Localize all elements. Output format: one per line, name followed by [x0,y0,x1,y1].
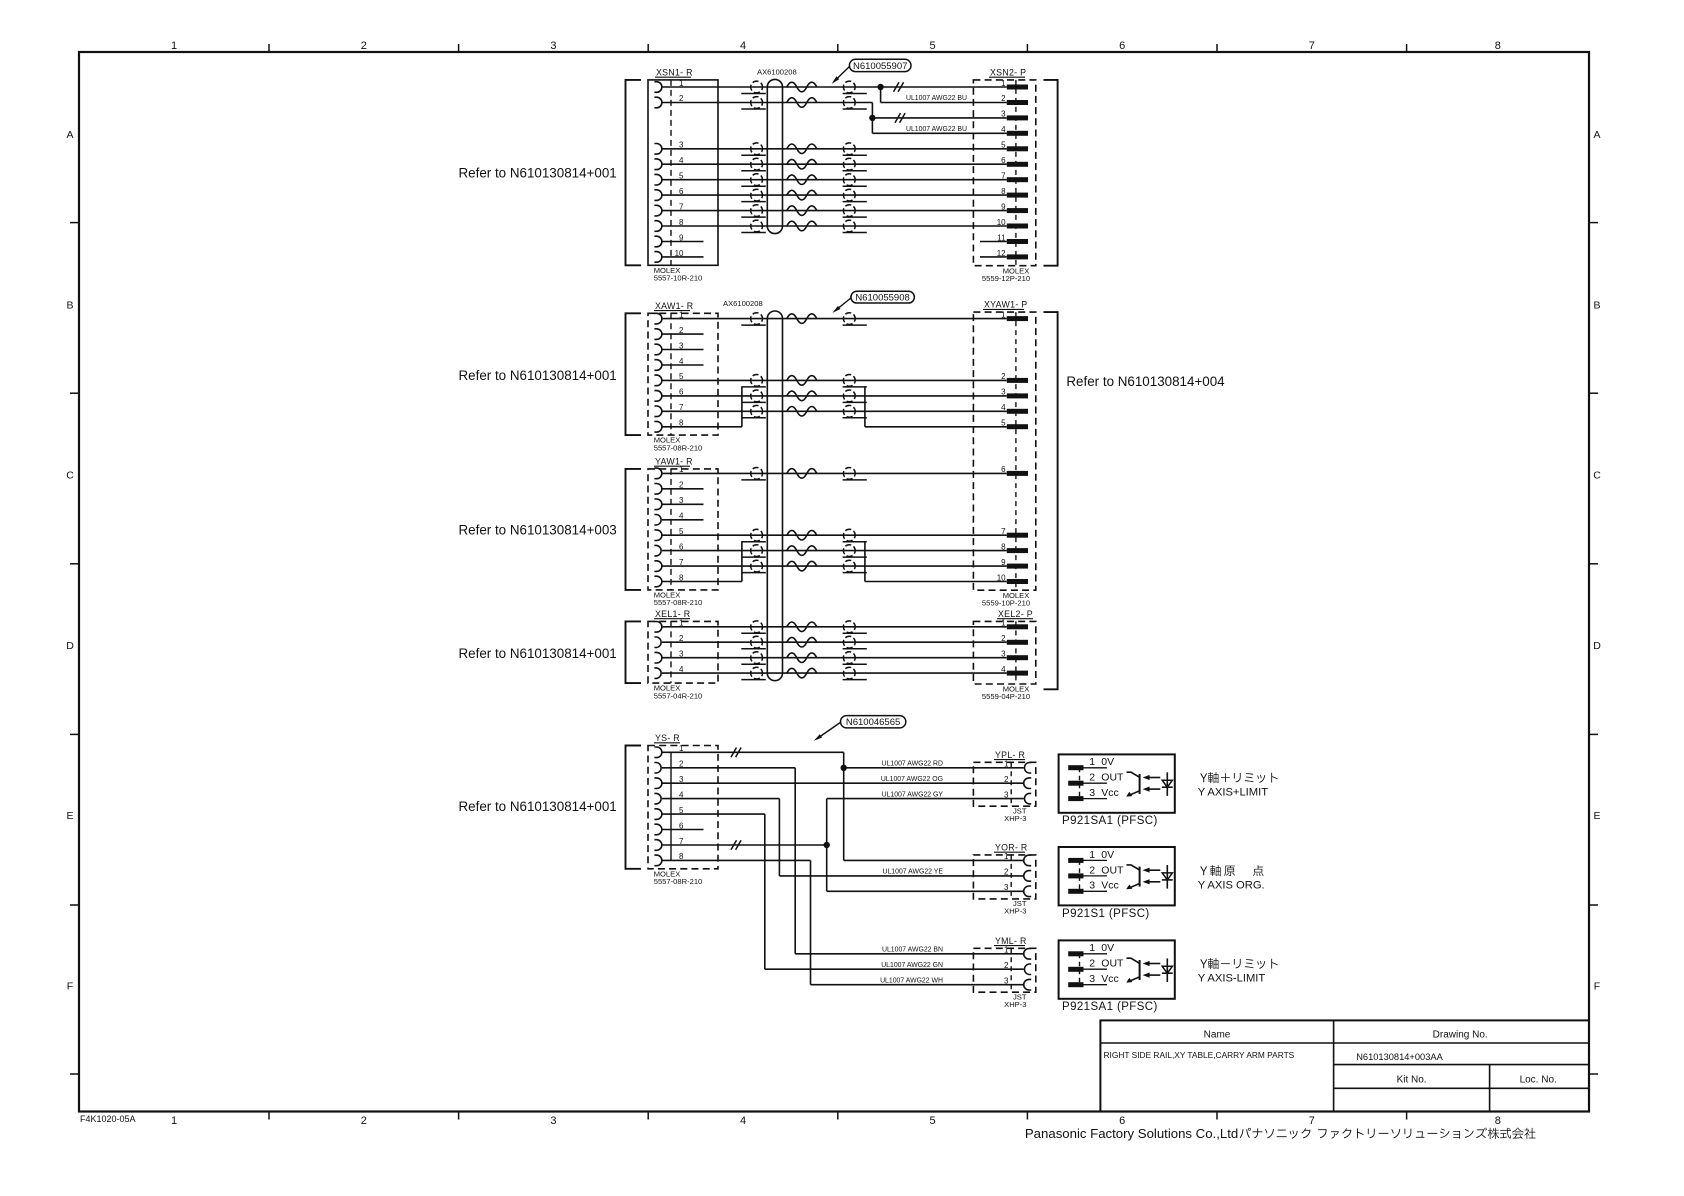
svg-text:0V: 0V [1101,756,1114,768]
twisted wire symbols XAW1 [751,313,763,325]
connector XEL1-R contacts and pin numbers [654,622,661,633]
connector XEL2-P pins [1007,624,1028,629]
sensor P921SA1 body [1059,754,1175,812]
svg-text:YML- R: YML- R [995,936,1027,946]
wire XAW1-1 to XYAW1-1 [662,318,1007,320]
svg-text:E: E [1593,810,1600,822]
sensor P921SA1 light arrows [1148,963,1161,965]
group bracket for YS-R [626,746,642,869]
connector XSN2-P pins [1007,85,1028,90]
svg-text:5: 5 [1001,419,1006,428]
connector YS-R body [648,746,718,869]
connector YAW1-R body [648,469,718,590]
svg-text:N610055907: N610055907 [853,61,907,72]
connector YS-R contacts and pin numbers [654,747,661,758]
svg-text:3: 3 [1089,880,1095,892]
svg-text:A: A [1593,129,1600,141]
svg-text:5559-12P-210: 5559-12P-210 [982,274,1030,283]
connector YML-R contacts and pin numbers [1024,949,1032,960]
svg-text:Vcc: Vcc [1101,973,1119,985]
svg-text:1: 1 [1004,852,1009,861]
svg-text:B: B [1593,299,1600,311]
svg-text:UL1007 AWG22 GN: UL1007 AWG22 GN [881,962,943,969]
svg-text:UL1007 AWG22 RD: UL1007 AWG22 RD [882,761,943,768]
svg-text:2: 2 [361,40,367,52]
wire YS-2 to YML-1 [662,767,795,769]
part balloon N610055908 with leader arrow [851,291,915,303]
svg-text:Y AXIS-LIMIT: Y AXIS-LIMIT [1198,972,1266,984]
svg-text:0V: 0V [1101,849,1114,861]
svg-text:2: 2 [1089,772,1095,784]
connector YAW1-R contacts and pin numbers [654,468,662,479]
connector YOR-R contacts and pin numbers [1024,855,1032,866]
svg-text:Loc. No.: Loc. No. [1520,1074,1557,1085]
svg-text:OUT: OUT [1101,958,1124,970]
svg-text:UL1007 AWG22 BU: UL1007 AWG22 BU [906,95,967,102]
connector XYAW1-P body [973,312,1035,590]
svg-text:3: 3 [1089,973,1095,985]
svg-text:XSN1- R: XSN1- R [656,67,693,77]
label Y axis + limit (Japanese) [1200,773,1207,782]
svg-text:10: 10 [997,573,1006,582]
svg-text:XAW1- R: XAW1- R [655,301,693,311]
connector YOR-R body [973,855,1035,899]
svg-text:5557-04R-210: 5557-04R-210 [654,691,703,700]
svg-text:1: 1 [171,40,177,52]
group bracket for XSN1-R [626,80,642,265]
svg-text:3: 3 [1004,883,1009,892]
svg-text:7: 7 [1309,1115,1315,1127]
group bracket for XSN2-P [1044,80,1058,266]
sensor P921S1 body [1059,847,1175,905]
svg-text:Name: Name [1204,1030,1231,1041]
svg-text:5559-04P-210: 5559-04P-210 [982,692,1030,701]
svg-text:Refer to N610130814+001: Refer to N610130814+001 [459,166,617,181]
wire XAW1-8 to XYAW1-5 (woven under pair) [662,426,742,428]
wires XAW1-5..7 to XYAW1-2..4 [662,379,1007,381]
twisted wire symbols XEL1 [751,621,763,633]
svg-text:4: 4 [740,40,746,52]
svg-text:3: 3 [550,1115,556,1127]
svg-text:6: 6 [1001,465,1006,474]
svg-text:4: 4 [740,1115,746,1127]
label Y axis origin (Japanese) [1200,866,1207,875]
svg-text:1: 1 [171,1115,177,1127]
svg-text:Y AXIS+LIMIT: Y AXIS+LIMIT [1198,787,1269,799]
label Y axis - limit (Japanese) [1200,959,1207,968]
svg-text:1: 1 [1004,946,1009,955]
wire YS-3 to YPL-2 [662,782,1024,784]
svg-text:F: F [67,981,73,993]
svg-text:5559-10P-210: 5559-10P-210 [982,598,1030,607]
svg-text:Panasonic Factory Solutions Co: Panasonic Factory Solutions Co.,Ltd [1025,1126,1238,1141]
svg-text:P921S1 (PFSC): P921S1 (PFSC) [1062,908,1150,920]
svg-text:F: F [1594,981,1600,993]
svg-text:1: 1 [1089,849,1095,861]
svg-text:1: 1 [1089,756,1095,768]
svg-text:N610130814+003AA: N610130814+003AA [1356,1052,1443,1062]
title block [1100,1020,1589,1111]
drawing border frame [79,52,1589,1112]
svg-text:Y AXIS ORG.: Y AXIS ORG. [1198,880,1265,892]
svg-text:Refer to N610130814+003: Refer to N610130814+003 [459,523,617,538]
wire YAW1-8 to XYAW1-10 (woven under pair) [662,581,742,583]
svg-text:Vcc: Vcc [1101,787,1119,799]
svg-text:B: B [66,299,73,311]
frame row ticks and letters [70,222,79,224]
sensor P921SA1 body [1059,940,1175,998]
sensor P921SA1 light arrows [1148,777,1161,779]
svg-text:YS- R: YS- R [655,733,680,743]
sensor P921SA1 phototransistor [1139,960,1141,980]
svg-text:P921SA1 (PFSC): P921SA1 (PFSC) [1062,815,1158,827]
connector XEL1-R body [648,621,718,683]
svg-text:2: 2 [1004,961,1009,970]
svg-text:Refer to N610130814+004: Refer to N610130814+004 [1066,374,1225,389]
sensor P921SA1 LED [1166,772,1168,796]
svg-text:UL1007 AWG22 YE: UL1007 AWG22 YE [882,869,943,876]
svg-text:OUT: OUT [1101,864,1124,876]
svg-text:6: 6 [1119,40,1125,52]
connector XAW1-R body [648,313,718,435]
svg-text:2: 2 [1089,864,1095,876]
svg-text:5: 5 [930,1115,936,1127]
twisted wire symbols YAW1 [751,468,763,480]
svg-text:XEL2- P: XEL2- P [998,609,1033,619]
svg-text:3: 3 [1004,977,1009,986]
svg-text:9: 9 [1001,558,1006,567]
wire YS-7 to YPL-3 and YOR-3 [662,844,827,846]
svg-text:Kit No.: Kit No. [1397,1074,1427,1085]
connector XEL2-P body [973,621,1035,684]
svg-text:XHP-3: XHP-3 [1004,1000,1026,1009]
wire YAW1-1 to XYAW1-6 [662,472,1007,474]
svg-text:OUT: OUT [1101,772,1124,784]
wire YS-5 to YML-2 [662,813,765,815]
wires XSN1-3..8 to XSN2-5..10 [662,148,1007,150]
sensor P921SA1 LED [1166,958,1168,982]
wire YS-1 to YPL-1 and YOR-1 [662,751,844,753]
group bracket for YAW1-R [626,469,642,590]
group bracket for XEL1-R [626,621,642,683]
connector YPL-R body [973,762,1035,806]
svg-text:Refer to N610130814+001: Refer to N610130814+001 [459,646,617,661]
svg-text:UL1007 AWG22 WH: UL1007 AWG22 WH [880,978,943,985]
svg-text:2: 2 [1004,775,1009,784]
svg-text:3: 3 [1001,388,1006,397]
svg-text:C: C [1593,470,1601,482]
sensor P921S1 phototransistor [1139,867,1141,887]
svg-text:XHP-3: XHP-3 [1004,907,1026,916]
svg-text:XEL1- R: XEL1- R [655,609,690,619]
svg-text:1: 1 [1089,942,1095,954]
svg-text:3: 3 [550,40,556,52]
svg-text:YPL- R: YPL- R [995,750,1025,760]
svg-text:N610055908: N610055908 [855,293,909,304]
wire XSN1-2 to XSN2-3/4 [662,102,872,104]
svg-text:AX6100208: AX6100208 [723,299,763,308]
svg-text:5557-08R-210: 5557-08R-210 [654,598,703,607]
svg-text:5: 5 [930,40,936,52]
svg-text:8: 8 [1001,542,1006,551]
sensor P921SA1 phototransistor [1139,774,1141,794]
svg-text:5557-08R-210: 5557-08R-210 [654,443,703,452]
svg-text:N610046565: N610046565 [846,717,900,728]
wire YS-4 to YOR-2 [662,798,779,800]
svg-text:5557-08R-210: 5557-08R-210 [654,877,703,886]
group bracket for XAW1-R [626,313,642,435]
sensor P921S1 light arrows [1148,869,1161,871]
wires XEL1-1..4 to XEL2-1..4 [662,626,1007,628]
svg-text:P921SA1 (PFSC): P921SA1 (PFSC) [1062,1001,1158,1013]
svg-text:D: D [1593,640,1601,652]
svg-text:4: 4 [1001,403,1006,412]
twisted pair symbols XSN1 wires [751,81,763,93]
svg-text:1: 1 [1004,760,1009,769]
svg-text:7: 7 [1309,40,1315,52]
connector XYAW1-P pins [1007,316,1028,321]
svg-text:UL1007 AWG22 GY: UL1007 AWG22 GY [882,791,944,798]
svg-text:XHP-3: XHP-3 [1004,814,1026,823]
svg-text:8: 8 [1495,40,1501,52]
svg-text:F4K1020-05A: F4K1020-05A [80,1114,136,1124]
svg-text:Refer to N610130814+001: Refer to N610130814+001 [459,799,617,814]
frame column ticks and numbers [268,44,270,52]
connector XAW1-R contacts and pin numbers [654,313,662,324]
svg-text:2: 2 [1004,868,1009,877]
svg-text:UL1007 AWG22 OG: UL1007 AWG22 OG [881,776,943,783]
svg-text:E: E [66,810,73,822]
sensor P921S1 LED [1166,865,1168,889]
part balloon N610046565 with leader arrow [841,716,906,728]
svg-text:RIGHT SIDE RAIL,XY TABLE,CARRY: RIGHT SIDE RAIL,XY TABLE,CARRY ARM PARTS [1104,1050,1295,1060]
wires YAW1-5..7 to XYAW1-7..9 [662,534,1007,536]
svg-text:Vcc: Vcc [1101,880,1119,892]
wire YS-8 to YML-3 [662,859,811,861]
svg-text:AX6100208: AX6100208 [757,68,797,77]
svg-text:XSN2- P: XSN2- P [990,67,1026,77]
svg-text:YAW1- R: YAW1- R [655,456,693,466]
svg-text:YOR- R: YOR- R [995,842,1028,852]
svg-text:UL1007 AWG22 BU: UL1007 AWG22 BU [906,126,967,133]
svg-text:2: 2 [1089,958,1095,970]
sensor P921S1 terminals [1079,860,1081,891]
cable sheath AX6100208 (sections 2-4) [767,311,782,681]
svg-text:3: 3 [1004,790,1009,799]
svg-text:2: 2 [1001,372,1006,381]
svg-text:A: A [66,129,73,141]
connector XSN1-R contacts and pin numbers [654,82,662,93]
svg-text:D: D [66,640,74,652]
cable sheath AX6100208 (section 1) [767,79,782,233]
connector YML-R body [973,948,1035,992]
wire XSN1-1 to XSN2-1/2 [662,86,881,88]
sensor P921SA1 terminals [1079,954,1081,985]
svg-text:8: 8 [1495,1115,1501,1127]
svg-text:C: C [66,470,74,482]
svg-text:3: 3 [1089,787,1095,799]
svg-text:Refer to N610130814+001: Refer to N610130814+001 [459,368,617,383]
svg-text:UL1007 AWG22 BN: UL1007 AWG22 BN [882,947,943,954]
svg-text:XYAW1- P: XYAW1- P [984,300,1027,310]
connector YPL-R contacts and pin numbers [1024,763,1031,774]
sensor P921SA1 terminals [1079,768,1081,799]
connector XSN1-R body [648,80,718,265]
connector XSN2-P body [973,80,1035,266]
svg-text:5557-10R-210: 5557-10R-210 [654,274,703,283]
svg-text:Drawing No.: Drawing No. [1433,1030,1488,1041]
svg-text:0V: 0V [1101,942,1114,954]
group bracket for XYAW1-P and XEL2-P [1044,312,1058,689]
svg-text:1: 1 [1001,310,1006,319]
svg-text:2: 2 [361,1115,367,1127]
svg-text:7: 7 [1001,527,1006,536]
part balloon N610055907 with leader arrow [849,59,911,71]
